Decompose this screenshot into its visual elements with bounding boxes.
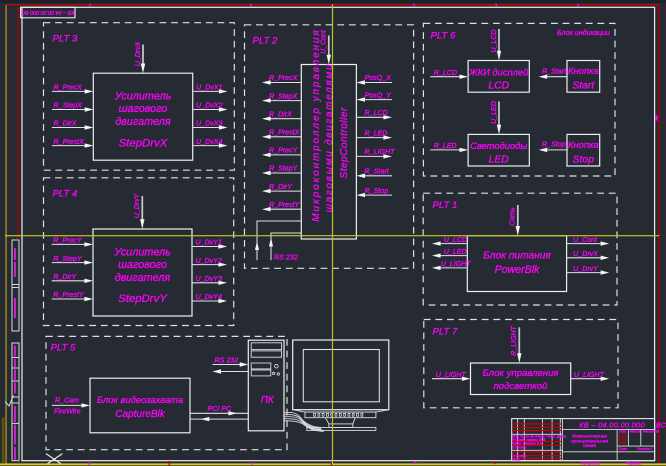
- magenta tick marks on top border: [89, 4, 90, 7]
- svg-text:R_Stop: R_Stop: [365, 187, 389, 195]
- amplifier block StepDrvX U3: [93, 73, 192, 160]
- svg-text:R_StepX: R_StepX: [54, 102, 83, 110]
- svg-text:PLT 1: PLT 1: [433, 200, 458, 211]
- top red frame line: [5, 4, 659, 5]
- svg-text:R_PrecX: R_PrecX: [54, 84, 83, 92]
- supply arrow R_LIGHT: [518, 327, 520, 354]
- supply arrow U_LCD: [498, 29, 500, 52]
- top-left doc-number box: [21, 7, 75, 18]
- right red frame line: [658, 4, 659, 464]
- svg-text:U_DvY4: U_DvY4: [196, 293, 222, 301]
- svg-text:схема: схема: [583, 444, 597, 449]
- svg-text:R_PrecX: R_PrecX: [269, 74, 298, 82]
- block PLT7 boundary: [424, 320, 618, 408]
- svg-text:Формат: Формат: [626, 462, 641, 466]
- tower drive bay 1: [251, 343, 281, 350]
- svg-text:R_PrestX: R_PrestX: [54, 138, 85, 146]
- tower power button: [275, 364, 279, 368]
- svg-text:R_PrestY: R_PrestY: [53, 291, 85, 299]
- title block right grid verticals: [617, 429, 641, 460]
- svg-text:U_LCD: U_LCD: [491, 30, 498, 53]
- title block lit-cell red marks: [620, 433, 626, 445]
- svg-text:R_Cam: R_Cam: [55, 397, 79, 405]
- wire R_Start: [546, 76, 567, 78]
- svg-text:StepController: StepController: [339, 107, 350, 179]
- svg-text:U_LIGHT: U_LIGHT: [574, 371, 605, 379]
- svg-text:двигателя: двигателя: [115, 116, 171, 128]
- wire R_PrecX out: [269, 82, 301, 84]
- svg-text:U_DvX2: U_DvX2: [196, 102, 222, 110]
- svg-text:PLT 4: PLT 4: [53, 189, 78, 200]
- wire R_PrecY: [52, 243, 86, 245]
- svg-text:Блок управления: Блок управления: [482, 368, 558, 379]
- viewport yellow line vertical: [332, 4, 333, 464]
- wire R_StepX: [52, 109, 86, 111]
- svg-text:двигателя: двигателя: [115, 272, 171, 284]
- svg-text:U_Cont: U_Cont: [321, 29, 328, 54]
- svg-text:Блок питания: Блок питания: [483, 251, 551, 262]
- svg-text:StepDrvY: StepDrvY: [118, 293, 168, 305]
- svg-text:PosQ_Y: PosQ_Y: [365, 91, 393, 99]
- svg-text:Кнопка: Кнопка: [568, 139, 599, 150]
- monitor screen: [303, 350, 379, 402]
- svg-text:R_DirX: R_DirX: [269, 110, 292, 118]
- supply arrow Сеть: [517, 205, 519, 227]
- wire U_DvY3: [192, 282, 220, 284]
- viewport yellow line horizontal: [5, 235, 660, 236]
- button Start block: [567, 61, 600, 93]
- power supply block PowerBlk U1: [467, 236, 566, 292]
- monitor base: [307, 428, 376, 431]
- wire R_StepY: [52, 262, 86, 264]
- supply arrow U_Cont: [328, 36, 330, 56]
- svg-text:Лист: Лист: [618, 447, 628, 451]
- svg-text:R_LED: R_LED: [365, 129, 388, 137]
- left margin rotated text marks: [14, 248, 16, 460]
- monitor stand neck: [325, 418, 355, 424]
- svg-text:КВ – 04.00.00.000: КВ – 04.00.00.000: [579, 420, 645, 429]
- svg-text:Сеть: Сеть: [510, 207, 517, 226]
- svg-text:R_DirY: R_DirY: [53, 273, 77, 281]
- wire R_StepX out: [269, 100, 301, 102]
- block PLT3 boundary: [44, 23, 235, 171]
- PC tower case: [248, 340, 284, 431]
- svg-text:ВС: ВС: [656, 420, 666, 429]
- svg-text:R_StepX: R_StepX: [269, 92, 298, 100]
- svg-text:Масса: Масса: [630, 430, 640, 434]
- backlight control block U7: [471, 363, 571, 395]
- wire R_Stop: [546, 149, 567, 151]
- cable bundle: [284, 412, 324, 431]
- tower floppy slot 1: [251, 363, 271, 369]
- block PLT4 boundary: [44, 178, 234, 326]
- video capture block CaptureBlk U5: [90, 378, 190, 433]
- wire RS232 line B: [271, 233, 301, 260]
- wire R_PrestY: [52, 298, 86, 300]
- wire RS232 line A: [257, 221, 301, 260]
- wire U_LCD out: [439, 243, 467, 245]
- svg-text:КВ – 04.00.00.000 ВС: КВ – 04.00.00.000 ВС: [21, 9, 74, 15]
- monitor buttons: [314, 413, 363, 416]
- svg-text:Копировал: Копировал: [581, 462, 601, 466]
- svg-text:Микроконтроллер управления: Микроконтроллер управления: [311, 28, 322, 221]
- svg-text:U_DrvY: U_DrvY: [573, 265, 599, 273]
- svg-text:R_LIGHT: R_LIGHT: [365, 148, 396, 156]
- svg-text:LCD: LCD: [488, 81, 509, 92]
- left margin column cells (lower): [12, 343, 19, 461]
- svg-text:RS 232: RS 232: [274, 254, 298, 262]
- title block left grid verticals: [518, 419, 563, 461]
- wire R_PrecX: [52, 90, 86, 92]
- title block red revision lines: [512, 424, 562, 459]
- supply arrow U_DrvX: [142, 45, 144, 65]
- svg-text:PLT 3: PLT 3: [53, 34, 79, 45]
- tower drive bay 2: [251, 351, 281, 357]
- svg-text:шаговыми двигателями: шаговыми двигателями: [324, 63, 335, 213]
- wire U_DrvX out: [567, 257, 602, 259]
- svg-text:R_StepY: R_StepY: [269, 165, 299, 173]
- header cells Лит Масса Масштаб: [618, 430, 659, 451]
- svg-text:R_StepY: R_StepY: [53, 255, 83, 263]
- wire U_DvY4: [192, 300, 220, 302]
- button Stop block: [567, 134, 600, 166]
- left red frame line (ends at yellow crosshair): [17, 8, 18, 238]
- svg-text:ПК: ПК: [261, 395, 275, 406]
- svg-text:R_PrestX: R_PrestX: [269, 129, 300, 137]
- wire R_LED: [430, 149, 461, 151]
- wire R_LIGHT out: [356, 155, 384, 157]
- svg-text:PLT 7: PLT 7: [433, 327, 459, 338]
- monitor outer shell: [293, 340, 389, 410]
- wire R_StepY out: [269, 172, 301, 174]
- svg-text:Усилитель: Усилитель: [114, 91, 172, 103]
- svg-text:Лит.: Лит.: [618, 430, 627, 434]
- wire R_DirX out: [269, 118, 301, 120]
- amplifier block StepDrvY U4: [93, 229, 192, 316]
- tower small buttons: [272, 372, 274, 374]
- svg-text:U_LIGHT: U_LIGHT: [441, 260, 472, 268]
- wire R_DirX: [52, 127, 86, 129]
- svg-text:шагового: шагового: [118, 259, 167, 271]
- svg-text:Масштаб: Масштаб: [643, 430, 659, 434]
- svg-text:LED: LED: [489, 154, 510, 165]
- wire R_PrestX out: [269, 136, 301, 138]
- svg-text:U_LED: U_LED: [491, 101, 498, 124]
- svg-text:U_LED: U_LED: [444, 248, 467, 256]
- svg-text:U_LCD: U_LCD: [444, 236, 467, 244]
- LED block: [468, 134, 529, 166]
- svg-text:U_DvX4: U_DvX4: [196, 138, 222, 146]
- svg-text:R_PrecY: R_PrecY: [53, 237, 83, 245]
- block PLT6 boundary: [423, 23, 615, 176]
- wire R_LCD out: [356, 116, 384, 118]
- svg-text:Светодиоды: Светодиоды: [470, 140, 527, 151]
- wire U_LIGHT out: [439, 267, 467, 269]
- supply arrow U_DrvY: [141, 196, 143, 220]
- wire R_LED out: [356, 137, 384, 139]
- wire PosQ_Y in: [364, 99, 392, 101]
- svg-text:U_DvY2: U_DvY2: [196, 257, 222, 265]
- wire U_LIGHT in: [432, 378, 463, 380]
- svg-text:U_DrvX: U_DrvX: [573, 250, 598, 258]
- title block horizontals: [512, 429, 655, 451]
- signature check mark: [5, 396, 14, 407]
- wire R_PrestY out: [269, 208, 301, 210]
- svg-text:U_DvX1: U_DvX1: [196, 84, 222, 92]
- left grid row texts: [513, 435, 566, 462]
- svg-text:PLT 2: PLT 2: [253, 36, 279, 47]
- wire U_LIGHT out: [571, 378, 602, 380]
- svg-text:StepDrvX: StepDrvX: [119, 137, 168, 149]
- svg-text:PosQ_X: PosQ_X: [365, 74, 392, 82]
- svg-text:Блок индикации: Блок индикации: [557, 29, 610, 37]
- svg-text:R_PrecY: R_PrecY: [269, 147, 299, 155]
- wire U_LED out: [439, 255, 467, 257]
- svg-text:PLT 6: PLT 6: [431, 31, 457, 42]
- left margin yellow line: [5, 4, 6, 464]
- wire R_DirY out: [269, 190, 301, 192]
- wire RS232 return: [220, 371, 249, 373]
- svg-text:R_DirX: R_DirX: [54, 120, 77, 128]
- svg-text:U_DvX3: U_DvX3: [196, 120, 222, 128]
- wire PCI PC return: [190, 418, 248, 420]
- wire R_Start in: [364, 175, 392, 177]
- svg-text:Утв.: Утв.: [513, 458, 521, 462]
- wire U_DvX1: [193, 90, 220, 92]
- tower floppy slot 2: [251, 370, 271, 376]
- wire U_DvX3: [193, 127, 220, 129]
- svg-text:U_DvY3: U_DvY3: [196, 275, 222, 283]
- svg-text:R_DirY: R_DirY: [269, 183, 293, 191]
- svg-text:ЖКИ дисплей: ЖКИ дисплей: [468, 66, 529, 77]
- wire R_LCD: [430, 76, 461, 78]
- svg-text:R_LCD: R_LCD: [434, 69, 457, 77]
- svg-text:Кнопка: Кнопка: [568, 65, 599, 76]
- LCD display block: [468, 61, 529, 93]
- wire R_Cam FireWire: [52, 404, 83, 406]
- svg-text:R_LED: R_LED: [434, 142, 457, 150]
- wire U_DrvY out: [567, 272, 602, 274]
- block PLT5 boundary: [46, 336, 287, 449]
- svg-text:FireWire: FireWire: [54, 407, 81, 415]
- svg-text:R_PrestY: R_PrestY: [269, 201, 301, 209]
- svg-text:R_Stop: R_Stop: [542, 141, 566, 149]
- block PLT2 boundary: [245, 25, 414, 268]
- wire U_Cont out: [567, 243, 602, 245]
- wire R_PrestX: [52, 145, 86, 147]
- supply arrow U_LED: [498, 101, 500, 125]
- bottom-left X cross: [46, 454, 62, 465]
- svg-text:U_Cont: U_Cont: [573, 236, 598, 244]
- svg-text:PowerBlk: PowerBlk: [495, 264, 540, 276]
- wire U_DvY2: [192, 264, 220, 266]
- svg-text:U_DvY1: U_DvY1: [196, 239, 222, 247]
- magenta mark right border: [655, 116, 657, 121]
- wire U_DvX4: [193, 145, 220, 147]
- bottom tick marks: [89, 462, 91, 464]
- svg-text:Т.контр.: Т.контр.: [513, 446, 527, 450]
- left margin column cells (upper): [12, 240, 19, 331]
- svg-text:R_Start: R_Start: [365, 168, 390, 176]
- title block outer frame: [512, 419, 655, 461]
- svg-text:Start: Start: [572, 81, 595, 92]
- monitor button tray: [293, 410, 389, 412]
- svg-text:R_LIGHT: R_LIGHT: [511, 325, 518, 355]
- svg-text:Stop: Stop: [573, 154, 595, 165]
- wire R_Stop in: [364, 194, 392, 196]
- svg-text:U_DrvY: U_DrvY: [134, 192, 141, 218]
- block PLT1 boundary: [423, 193, 617, 305]
- svg-text:RS 232: RS 232: [215, 356, 239, 364]
- svg-text:CaptureBlk: CaptureBlk: [115, 409, 165, 420]
- svg-text:Блок видеозахвата: Блок видеозахвата: [97, 394, 183, 405]
- svg-text:R_LCD: R_LCD: [365, 109, 388, 117]
- svg-text:U_DrvX: U_DrvX: [135, 41, 142, 66]
- wire PCI PC to tower: [190, 412, 248, 414]
- wire U_DvY1: [192, 246, 220, 248]
- wire PosQ_X in: [364, 82, 392, 84]
- wire R_PrecY out: [269, 154, 301, 156]
- svg-text:Листов 1: Листов 1: [636, 447, 652, 451]
- svg-text:U_LIGHT: U_LIGHT: [436, 371, 467, 379]
- svg-text:подсветкой: подсветкой: [494, 381, 549, 392]
- svg-text:Усилитель: Усилитель: [113, 246, 171, 258]
- wire RS232 to tower: [212, 364, 241, 366]
- svg-text:R_Start: R_Start: [542, 68, 567, 76]
- svg-text:PLT 5: PLT 5: [51, 343, 77, 354]
- svg-text:PCI PC: PCI PC: [208, 405, 233, 413]
- microcontroller block StepController U2: [301, 65, 356, 240]
- bottom yellow line: [0, 463, 666, 465]
- document name lines: [571, 433, 608, 449]
- wire U_DvX2: [193, 109, 220, 111]
- svg-text:шагового: шагового: [119, 103, 168, 115]
- wire R_DirY: [52, 280, 86, 282]
